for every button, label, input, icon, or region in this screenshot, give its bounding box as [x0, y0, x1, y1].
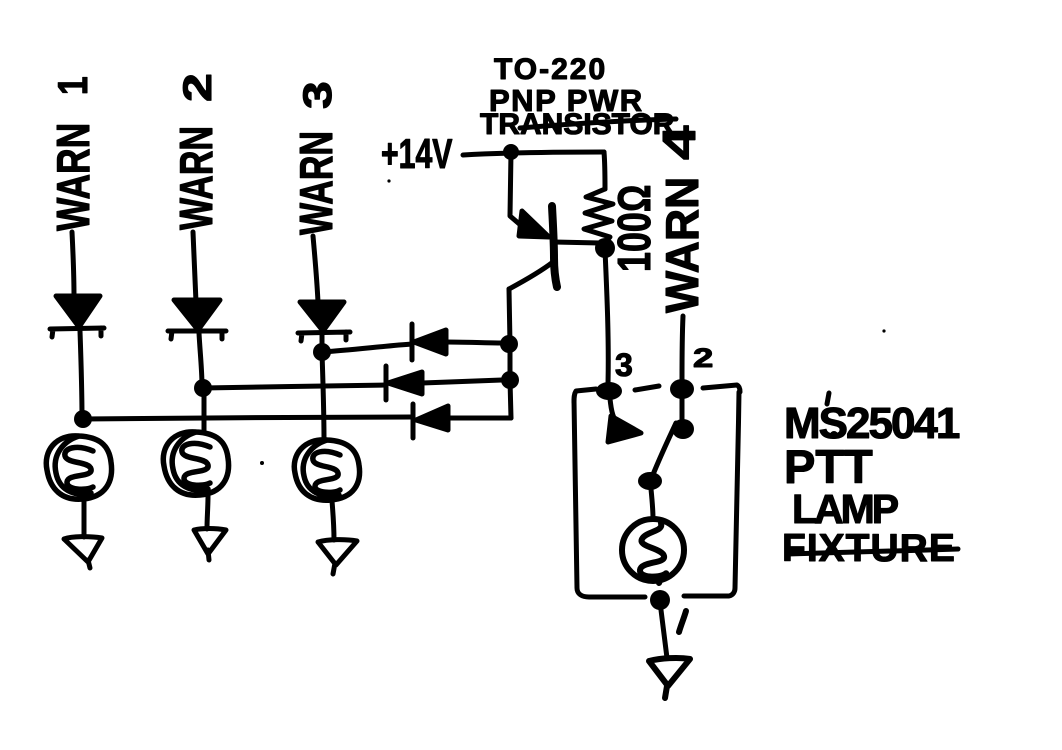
node collector junction [595, 238, 615, 258]
node WARN 3 label [290, 81, 342, 235]
node lamp bottom junction [650, 590, 670, 610]
node pin 2 label [693, 343, 713, 373]
label LAMP [792, 486, 898, 532]
wire +14V rail [463, 152, 604, 155]
node WARN 4 label [654, 125, 708, 313]
node rail junction [503, 144, 519, 160]
wire D4 to node D [446, 342, 503, 343]
wire collector to pin 3 [605, 250, 608, 384]
lamp L3 [294, 440, 359, 500]
wire base vertical [509, 289, 511, 418]
fixture box MS25041 [574, 385, 740, 597]
label FIXTURE [782, 527, 958, 570]
ground GND4 [649, 658, 690, 698]
label PNP PWR [489, 83, 644, 118]
node pin 2 junction [670, 379, 694, 399]
diode D6 (bottom steering) [413, 404, 448, 438]
wire lamp to ground [661, 610, 667, 658]
speck dot [260, 461, 264, 465]
svg-text:3: 3 [295, 81, 340, 109]
wire L3 to ground [332, 501, 334, 540]
wire L1 to ground [82, 494, 87, 537]
label TRANSISTOR [480, 108, 676, 141]
transistor Q1 base lead [509, 262, 553, 289]
node B junction [194, 379, 212, 397]
lamp L1 [46, 436, 111, 499]
resistor R1 value label [609, 185, 660, 272]
svg-text:WARN: WARN [656, 177, 708, 313]
transistor Q1 emitter arrow [519, 211, 549, 237]
diode D5 (middle steering) [386, 366, 422, 400]
wire node C to L3 [322, 353, 324, 440]
fixture contact arrow at pin 3 [608, 399, 641, 442]
label PTT [784, 440, 873, 493]
node A junction [74, 410, 92, 428]
wire bus C (node A to D6) [83, 417, 412, 419]
node E junction [501, 371, 519, 389]
node lever end junction [638, 472, 662, 490]
diode D4 (top steering) [412, 324, 446, 360]
ground GND3 [318, 540, 357, 574]
wire pin2 stub [680, 399, 685, 421]
speck dot [387, 179, 390, 182]
wire WARN1 lead [72, 232, 74, 297]
label MS25041 [784, 393, 960, 448]
svg-text:100Ω: 100Ω [609, 185, 660, 272]
svg-text:WARN: WARN [48, 123, 100, 231]
svg-text:2: 2 [693, 343, 713, 373]
svg-text:WARN: WARN [170, 126, 222, 230]
wire WARN3 lead [313, 236, 318, 302]
wire bus A (node C to D4) [322, 344, 412, 352]
node pin 3 junction [596, 382, 622, 400]
transistor Q1 collector lead [554, 242, 600, 243]
wire D6 to base line [448, 416, 511, 421]
svg-text:LAMP: LAMP [792, 486, 898, 532]
svg-text:+14V: +14V [381, 130, 453, 177]
wire bus B (node B to D5) [203, 385, 386, 388]
wire D5 to node E [422, 380, 502, 383]
label TO-220 [494, 53, 607, 86]
wire L2 to ground [207, 496, 208, 529]
svg-text:4: 4 [654, 125, 705, 160]
lamp L2 [163, 432, 228, 495]
svg-text:2: 2 [175, 73, 220, 102]
diode D1 (WARN1 series) [50, 296, 104, 337]
node D junction [500, 335, 518, 353]
transistor Q1 base bar [552, 206, 557, 287]
node WARN 1 label [48, 76, 100, 231]
wire lever to lamp [651, 489, 653, 519]
wire WARN2 lead [193, 232, 196, 302]
diode D2 (WARN2 series) [168, 300, 226, 339]
transistor Q1 emitter lead [510, 152, 524, 228]
node pin 1 label [679, 611, 686, 632]
diode D3 (WARN3 series) [298, 302, 350, 341]
node switch pivot junction [672, 419, 694, 439]
node +14V label [381, 130, 453, 177]
resistor R1 100 ohm [584, 189, 613, 244]
wire D3 to node C [320, 334, 325, 351]
ground GND2 [194, 529, 226, 561]
node WARN 2 label [170, 73, 222, 230]
node C junction [313, 343, 331, 361]
svg-text:WARN: WARN [290, 131, 342, 235]
wire D1 to node A [80, 331, 82, 418]
wire rail corner down to resistor [604, 152, 605, 189]
speck dot [882, 329, 885, 332]
wire D2 to node B [199, 333, 202, 386]
ground GND1 [64, 537, 102, 568]
wire WARN4 lead [682, 316, 683, 380]
svg-text:TO-220: TO-220 [494, 53, 607, 86]
lamp L4 (fixture lamp) [622, 519, 684, 583]
node pin 3 label [615, 347, 633, 383]
wire node B to L2 [202, 389, 207, 432]
switch lever [652, 423, 676, 477]
svg-text:3: 3 [615, 347, 633, 383]
svg-text:1: 1 [51, 76, 97, 95]
